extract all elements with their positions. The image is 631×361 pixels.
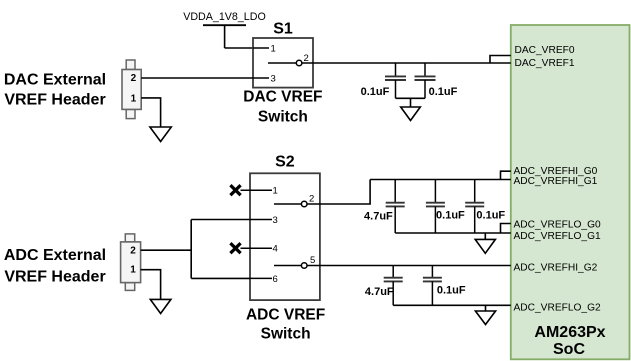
svg-text:ADC_VREFHI_G0: ADC_VREFHI_G0 (514, 166, 598, 177)
svg-text:DAC VREF: DAC VREF (243, 89, 322, 106)
ground (DAC header) (150, 127, 171, 142)
S1 contact circle pin 2 (296, 60, 302, 66)
svg-text:0.1uF: 0.1uF (437, 285, 466, 297)
S1 pin 3 stub (253, 77, 269, 79)
svg-text:1: 1 (131, 94, 137, 105)
svg-text:6: 6 (273, 274, 278, 285)
wire rail to ground (G0/G1 caps) (484, 233, 486, 239)
wire step to ADC_VREFHI_G0 (501, 171, 511, 179)
svg-text:ADC_VREFLO_G2: ADC_VREFLO_G2 (514, 302, 602, 313)
svg-text:ADC_VREFHI_G1: ADC_VREFHI_G1 (514, 176, 598, 187)
svg-text:0.1uF: 0.1uF (436, 210, 465, 222)
no-connect X pin 1 (230, 185, 240, 195)
S2 pole arm lower (274, 265, 301, 267)
wire header J2 pin1 to ground (141, 270, 161, 300)
wire header pin2 to S1 pin 3 (141, 77, 253, 79)
ground (DAC caps) (401, 107, 421, 121)
S2 caption (246, 307, 325, 343)
S1 caption (243, 89, 322, 126)
wire rail to ground (G2 caps) (485, 305, 487, 311)
svg-text:Switch: Switch (258, 109, 308, 126)
S2 contact circle pin 5 (301, 263, 307, 269)
capacitor C7 0.1uF (423, 266, 442, 306)
wire X to S2 pin 1 (241, 189, 273, 191)
capacitor C2 0.1uF (DAC) (415, 63, 436, 98)
wire branch to S2 pin 3 (191, 219, 250, 221)
S1 pole arm (268, 62, 296, 64)
wire step to DAC_VREF0 (490, 56, 511, 64)
switch S1 (253, 21, 313, 88)
svg-text:3: 3 (271, 73, 276, 84)
S2 pin 3 stub (250, 219, 272, 221)
svg-text:1: 1 (273, 186, 278, 197)
wire cap bottom rail (DAC) (396, 97, 426, 99)
capacitor C5 0.1uF (465, 180, 484, 234)
wire branch vertical (190, 220, 192, 279)
svg-text:S2: S2 (275, 153, 295, 170)
svg-text:DAC External: DAC External (4, 72, 106, 89)
capacitor C3 4.7uF (386, 180, 405, 234)
svg-text:DAC_VREF1: DAC_VREF1 (515, 58, 575, 69)
wire branch to S2 pin 6 (191, 277, 250, 279)
svg-text:SoC: SoC (553, 341, 585, 358)
capacitor C6 4.7uF (384, 266, 403, 306)
S2 pole arm upper (274, 203, 301, 205)
wire S2 pin 5 to SoC ADC_VREFHI_G2 (307, 265, 511, 267)
wire step to ADC_VREFLO_G0 (501, 224, 511, 234)
svg-text:ADC VREF: ADC VREF (246, 307, 325, 324)
capacitor C1 0.1uF (DAC) (385, 63, 406, 98)
wire VREFLO_G1 rail to SoC (395, 232, 511, 234)
svg-text:VREF Header: VREF Header (4, 269, 105, 286)
svg-text:DAC_VREF0: DAC_VREF0 (515, 45, 575, 56)
power net VDDA_1V8_LDO (183, 11, 266, 48)
svg-text:0.1uF: 0.1uF (429, 86, 458, 98)
wire power to S1 pin 1 (225, 47, 253, 49)
S2 contact circle pin 2 (301, 201, 307, 207)
S2 pin 6 stub (250, 277, 272, 279)
svg-text:0.1uF: 0.1uF (361, 86, 390, 98)
wire header J2 pin2 to branch (141, 249, 192, 251)
wire X to S2 pin 4 (241, 247, 273, 249)
svg-text:4: 4 (273, 244, 278, 255)
svg-text:4.7uF: 4.7uF (364, 210, 393, 222)
svg-text:ADC_VREFHI_G2: ADC_VREFHI_G2 (514, 262, 598, 273)
S1 pin 1 stub (253, 47, 269, 49)
svg-text:ADC External: ADC External (4, 247, 106, 264)
switch S2 (250, 153, 320, 300)
wire VREFHI_G1 rail to SoC (370, 179, 511, 181)
wire header pin1 to ground (141, 98, 160, 127)
svg-text:2: 2 (131, 73, 137, 84)
no-connect X pin 4 (230, 243, 240, 253)
svg-text:2: 2 (130, 245, 136, 256)
header J2 ADC external (121, 234, 141, 291)
svg-text:VREF Header: VREF Header (4, 92, 105, 109)
ADC External VREF Header caption (4, 247, 106, 286)
wire S2 pin 2 to VREFHI rail (307, 180, 370, 205)
wire rail to ground (DAC caps) (410, 98, 412, 107)
ground (G2 caps) (475, 311, 495, 325)
svg-text:3: 3 (273, 215, 278, 226)
svg-text:1: 1 (271, 44, 276, 55)
ground (G0/G1 caps) (475, 239, 495, 253)
svg-text:4.7uF: 4.7uF (365, 286, 394, 298)
wire S1 pin 2 to SoC (DAC_VREF1 net) (302, 62, 490, 64)
wire VREFLO_G2 rail to SoC (393, 304, 511, 306)
svg-text:0.1uF: 0.1uF (476, 210, 505, 222)
SoC block AM263Px (511, 25, 630, 359)
svg-text:2: 2 (309, 194, 314, 205)
svg-text:ADC_VREFLO_G0: ADC_VREFLO_G0 (514, 220, 602, 231)
svg-text:ADC_VREFLO_G1: ADC_VREFLO_G1 (514, 231, 602, 242)
svg-text:S1: S1 (273, 21, 293, 38)
svg-text:AM263Px: AM263Px (534, 324, 605, 341)
capacitor C4 0.1uF (426, 180, 445, 234)
svg-text:VDDA_1V8_LDO: VDDA_1V8_LDO (183, 11, 266, 23)
svg-text:5: 5 (310, 255, 315, 266)
header J1 DAC external (122, 60, 141, 119)
svg-text:1: 1 (130, 265, 136, 276)
svg-text:Switch: Switch (261, 326, 311, 343)
ground (ADC header) (150, 299, 171, 313)
DAC External VREF Header caption (4, 72, 106, 109)
